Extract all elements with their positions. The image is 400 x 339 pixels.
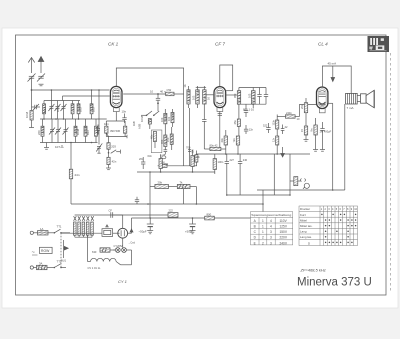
resistor CW (166, 92, 174, 96)
svg-text:Mittel tas.: Mittel tas. (300, 224, 313, 228)
wire left column (31, 90, 33, 107)
wire diode up (122, 238, 124, 248)
table voltage selector (251, 212, 293, 245)
wire bus 190 (257, 189, 345, 191)
svg-text:12k: 12k (191, 149, 195, 154)
wire grid loop V2 (220, 65, 233, 91)
svg-text:20k: 20k (164, 162, 169, 166)
svg-text:103: 103 (91, 107, 95, 112)
box oscillator sub (151, 130, 162, 153)
wire under 390 536 (106, 133, 127, 138)
wire vertical 263 (262, 190, 264, 218)
wire switch gang (60, 233, 62, 268)
coil IFT2 b (251, 88, 255, 109)
wire plate V1 (123, 93, 166, 95)
svg-text:CF: CF (109, 209, 113, 213)
trimmer T2 (55, 101, 61, 120)
svg-text:350: 350 (160, 139, 164, 144)
wire speaker links (357, 96, 360, 102)
wire vertical 189 (189, 108, 191, 166)
coil L11 (164, 127, 167, 147)
svg-text:Mittel: Mittel (300, 218, 307, 222)
svg-text:220V: 220V (280, 236, 288, 240)
resistor 1018 left (29, 107, 34, 128)
svg-text:CF 7: CF 7 (215, 42, 225, 47)
resistor 7k hatched (177, 184, 196, 204)
arrow V (281, 147, 285, 157)
arrow heater tap (64, 240, 69, 258)
trimmer T1 (61, 101, 67, 120)
svg-text:1A: 1A (40, 227, 44, 231)
wire loop to tube (226, 90, 233, 92)
svg-text:D: D (308, 241, 310, 245)
capacitor 227 (225, 154, 229, 195)
svg-text:3: 3 (270, 230, 272, 234)
capacitor CF psu (111, 212, 123, 228)
capacitor 40n (156, 94, 160, 103)
svg-text:ROW: ROW (41, 249, 50, 253)
svg-text:390 536: 390 536 (110, 129, 121, 133)
resistor 630 (100, 248, 116, 252)
node plate junction (157, 93, 159, 95)
svg-text:~50μF: ~50μF (139, 230, 147, 234)
value labels (25, 62, 353, 270)
coil L1 (43, 101, 46, 120)
svg-text:1018: 1018 (25, 111, 29, 118)
capacitor 24n (69, 169, 72, 204)
resistor 72n (236, 136, 239, 154)
capacitor 42 (281, 125, 285, 135)
svg-text:150V: 150V (280, 230, 288, 234)
wire V2 stem down (218, 111, 222, 147)
table pushbutton matrix (299, 206, 358, 246)
tube V1 CK1 (110, 86, 122, 111)
resistor 12k psu (191, 150, 194, 172)
svg-text:B: B (254, 225, 256, 229)
capacitor 26n (141, 157, 145, 169)
capacitor 400u cathode (320, 122, 324, 150)
ground ant2 (39, 84, 44, 86)
wire vertical 274 (273, 154, 275, 195)
wire grid V1 (63, 95, 110, 97)
diode pair (113, 248, 131, 253)
antenna arrow 2 (38, 57, 44, 74)
trimmer T4 (63, 119, 69, 143)
coil IFT1 c (203, 86, 207, 108)
svg-text:45n: 45n (233, 120, 237, 125)
antenna arrow 1 (28, 58, 34, 74)
wire screen to vertical (328, 102, 333, 104)
svg-text:4: 4 (270, 219, 272, 223)
node bus dots (43, 118, 92, 143)
transformer output (346, 93, 358, 104)
wire top link (44, 100, 80, 102)
svg-text:42n: 42n (112, 160, 117, 164)
resistor 160 (160, 164, 167, 167)
svg-text:72n: 72n (232, 138, 236, 143)
svg-text:24n: 24n (75, 173, 80, 177)
svg-text:3A: 3A (39, 261, 43, 265)
svg-text:12k: 12k (196, 155, 201, 159)
svg-text:Kurz: Kurz (300, 213, 306, 217)
wire osc down (70, 143, 72, 170)
wire IFT1 top bar (196, 86, 206, 88)
svg-text:107: 107 (55, 145, 60, 149)
capacitor 240 (238, 154, 242, 195)
resistor 12k (195, 151, 198, 166)
diode detector wire (245, 104, 247, 110)
resistor 46n (153, 132, 156, 149)
coil L8 (95, 119, 98, 143)
resistor 12r (276, 136, 279, 154)
svg-text:7 mA: 7 mA (347, 106, 354, 110)
heater coil humps (88, 235, 132, 265)
svg-text:227: 227 (230, 158, 235, 162)
tube V2 CF7 (214, 87, 226, 112)
svg-text:150: 150 (166, 137, 170, 142)
resistor 390 (105, 121, 109, 137)
svg-text:E: E (254, 241, 256, 245)
Minerva logo (368, 36, 390, 52)
trimmer T3 (49, 119, 55, 143)
wire antenna bus (32, 84, 110, 90)
node af dots (225, 153, 278, 155)
trimmer capacitor ant1 (28, 74, 36, 85)
svg-text:20k: 20k (158, 181, 163, 185)
wire to output grid (300, 105, 317, 117)
node 253 bottom (252, 103, 254, 105)
capacitor 522 a (266, 123, 270, 133)
fold mark dashed line (390, 53, 392, 291)
switch S3 (153, 111, 159, 116)
node junctions psu2 (147, 194, 227, 219)
ground cathode (313, 150, 325, 152)
wire transformer return (344, 104, 346, 190)
svg-text:→Cxxl: →Cxxl (128, 242, 136, 245)
border frame (16, 35, 387, 295)
wire IFT2 bottom bar (239, 103, 266, 105)
svg-text:+50μF: +50μF (185, 230, 193, 234)
node antenna junction (31, 89, 33, 91)
svg-text:800 1·10: 800 1·10 (243, 108, 254, 112)
svg-text:1: 1 (262, 219, 264, 223)
coil L4 (90, 89, 93, 119)
svg-text:3: 3 (270, 236, 272, 240)
resistor 80n (204, 147, 226, 150)
wire screen down (332, 103, 334, 190)
resistor 43n (224, 130, 227, 154)
svg-text:112n: 112n (272, 119, 276, 125)
svg-text:46n: 46n (150, 134, 154, 139)
svg-text:CK 1: CK 1 (108, 42, 119, 47)
svg-text:TT1: TT1 (57, 225, 62, 229)
wire AF bus (196, 153, 310, 155)
coil IFT2 a (237, 88, 240, 109)
node mid junction (157, 102, 159, 104)
fuse 1A (38, 231, 54, 235)
switch S2 (141, 111, 152, 116)
svg-text:522: 522 (263, 124, 268, 128)
resistor 100n psu (213, 154, 216, 174)
coil IFT1 a (187, 86, 190, 108)
svg-text:10: 10 (150, 90, 154, 94)
wire down to switch row (157, 103, 159, 111)
current arrow 45mA (331, 66, 335, 82)
wire V1 cathode down (115, 112, 117, 121)
svg-text:800: 800 (207, 212, 212, 216)
wire rf bus top (40, 118, 107, 120)
svg-text:Minerva 373 U: Minerva 373 U (297, 277, 372, 289)
wire IFT2 top bar (239, 87, 266, 89)
resistor 20k (150, 184, 177, 188)
wire grid drop (62, 96, 64, 101)
tube V3 CL4 (317, 87, 328, 113)
svg-text:2: 2 (262, 241, 264, 245)
trimmer capacitor ant2 (37, 74, 45, 82)
wire pin bar (106, 120, 125, 122)
svg-text:240V: 240V (280, 241, 288, 245)
svg-text:103: 103 (192, 95, 196, 100)
wire rf bus bottom (40, 142, 98, 144)
capacitor left small (96, 125, 100, 135)
fuse 2 (37, 265, 54, 269)
svg-text:222: 222 (169, 209, 174, 213)
svg-text:45 mA: 45 mA (328, 62, 337, 66)
capacitor 46 cathode V2 (202, 108, 206, 149)
svg-text:240n: 240n (286, 111, 292, 115)
wire bottom of osc (158, 165, 197, 167)
coil L6 (74, 119, 77, 143)
svg-text:630: 630 (92, 250, 97, 254)
svg-text:103: 103 (43, 107, 47, 112)
svg-text:1M 400μF: 1M 400μF (320, 130, 332, 134)
svg-text:700: 700 (186, 146, 191, 150)
node dots 172 (149, 171, 193, 173)
svg-text:103: 103 (56, 107, 60, 112)
svg-text:473: 473 (96, 130, 100, 135)
svg-text:240: 240 (243, 158, 248, 162)
wire bus 172 (137, 171, 215, 173)
wire B+ 218 (132, 217, 264, 219)
coil L7 (84, 119, 87, 143)
padder oval (162, 156, 166, 159)
svg-text:1bB: 1bB (132, 121, 136, 126)
svg-text:Drucker: Drucker (300, 207, 310, 211)
capacitor arrow left (32, 104, 41, 110)
capacitor 62n on bus (135, 197, 139, 204)
resistor 63n top psu (159, 155, 162, 172)
wire grid left V2 (206, 94, 214, 96)
capacitor IFT2 c2 (264, 88, 268, 105)
wire plate V2 (226, 94, 238, 96)
tube V4 CY1 rectifier (118, 228, 128, 238)
svg-text:101: 101 (167, 116, 171, 121)
wire vertical 290 (289, 154, 291, 195)
coil L9 (164, 109, 167, 127)
speaker (361, 90, 375, 108)
capacitor 800 det (244, 111, 248, 118)
svg-text:CY 1: CY 1 (118, 279, 127, 284)
svg-text:459: 459 (233, 93, 237, 98)
wire rectifier out (128, 218, 133, 233)
svg-text:CW: CW (167, 88, 172, 92)
capacitor 700 (188, 150, 191, 152)
svg-text:110V: 110V (280, 219, 288, 223)
svg-text:103: 103 (247, 93, 251, 98)
svg-text:125V: 125V (280, 225, 288, 229)
svg-text:CY205A: CY205A (114, 244, 124, 248)
svg-text:1038: 1038 (76, 128, 80, 135)
wire vertical 183 (183, 94, 185, 166)
wire 20k feed (150, 187, 196, 219)
mains plug box ROW (32, 247, 53, 256)
wire grid cap loop V1 (116, 68, 183, 94)
wire bus 195 (227, 194, 290, 196)
capacitor pad (164, 147, 168, 155)
pickup jack (290, 177, 309, 189)
resistor 9n cathode (314, 118, 317, 150)
ground rf bank (44, 143, 49, 150)
capacitor 10n v1 (122, 114, 126, 124)
coil L3 (77, 101, 80, 120)
mains terminal 1 (30, 231, 37, 234)
coil IFT1 b (196, 86, 200, 108)
resistor 203 (107, 137, 110, 158)
svg-text:Lang tas.: Lang tas. (300, 235, 312, 239)
resistor 112n (276, 115, 279, 137)
wire bottom long bus (71, 203, 263, 205)
svg-text:40 n: 40 n (160, 90, 166, 94)
capacitor electrolytic 50uF b (189, 218, 196, 234)
svg-text:1018: 1018 (140, 115, 144, 122)
svg-text:1: 1 (262, 225, 264, 229)
svg-text:12n: 12n (249, 128, 254, 132)
capacitor electrolytic 50uF a (147, 218, 154, 234)
resistor 536 (124, 121, 127, 137)
svg-text:26n: 26n (139, 157, 144, 161)
svg-text:12r: 12r (272, 138, 276, 142)
coil L12 (170, 127, 173, 150)
wire osc feed (98, 89, 100, 144)
resistor 45n (237, 108, 240, 136)
svg-text:20n: 20n (300, 104, 304, 109)
wire 148 up (149, 172, 151, 187)
svg-text:ZF=468,5 kHz: ZF=468,5 kHz (300, 268, 326, 273)
svg-text:5·25: 5·25 (160, 153, 166, 157)
mains terminal 2 (30, 266, 36, 269)
switch S1 (108, 150, 121, 154)
svg-text:220: 220 (37, 130, 41, 135)
node dots psu (262, 189, 333, 205)
resistor 240n (277, 115, 299, 118)
resistor small hatched (148, 119, 151, 129)
resistor tap box (168, 213, 178, 218)
svg-text:ASB: ASB (138, 124, 142, 129)
svg-text:Spannungsumschaltung: Spannungsumschaltung (251, 213, 291, 217)
svg-text:203: 203 (111, 145, 116, 149)
resistor 800 (205, 216, 215, 220)
wire plate top loop (322, 66, 351, 93)
trimmer T3b (55, 119, 61, 143)
capacitor 22n (106, 157, 111, 169)
svg-text:103: 103 (160, 117, 164, 122)
svg-text:4: 4 (270, 225, 272, 229)
svg-text:3: 3 (270, 241, 272, 245)
svg-text:CV 1 01 1L: CV 1 01 1L (88, 266, 102, 270)
svg-text:80n 42: 80n 42 (210, 144, 218, 148)
coil L2 (71, 101, 74, 120)
resistor bank heater dropper (61, 215, 168, 237)
svg-text:CL 4: CL 4 (318, 42, 328, 47)
svg-text:BU1: BU1 (61, 259, 67, 263)
svg-text:103: 103 (78, 107, 82, 112)
switch mains 2 (54, 264, 67, 268)
capacitor 12n (244, 125, 248, 134)
coil L10 (171, 109, 174, 127)
trimmer T1b (48, 89, 54, 119)
capacitor IFT2 c1 (257, 88, 261, 105)
trimmer left column (96, 143, 102, 153)
svg-text:833: 833 (86, 130, 90, 135)
svg-text:100n: 100n (218, 160, 224, 164)
capacitor 20n out (304, 98, 307, 126)
resistor under 20n (304, 126, 307, 140)
coil L5 (41, 119, 44, 143)
switch mains 1 (54, 229, 71, 233)
ballast box (102, 225, 118, 237)
svg-text:1: 1 (262, 230, 264, 234)
svg-text:10n: 10n (122, 110, 127, 114)
svg-text:Lang: Lang (300, 230, 307, 234)
svg-text:2: 2 (262, 236, 264, 240)
svg-text:43n: 43n (220, 138, 224, 143)
svg-text:10n: 10n (104, 122, 109, 126)
svg-text:63n: 63n (148, 154, 153, 158)
ground 306 (304, 140, 309, 142)
